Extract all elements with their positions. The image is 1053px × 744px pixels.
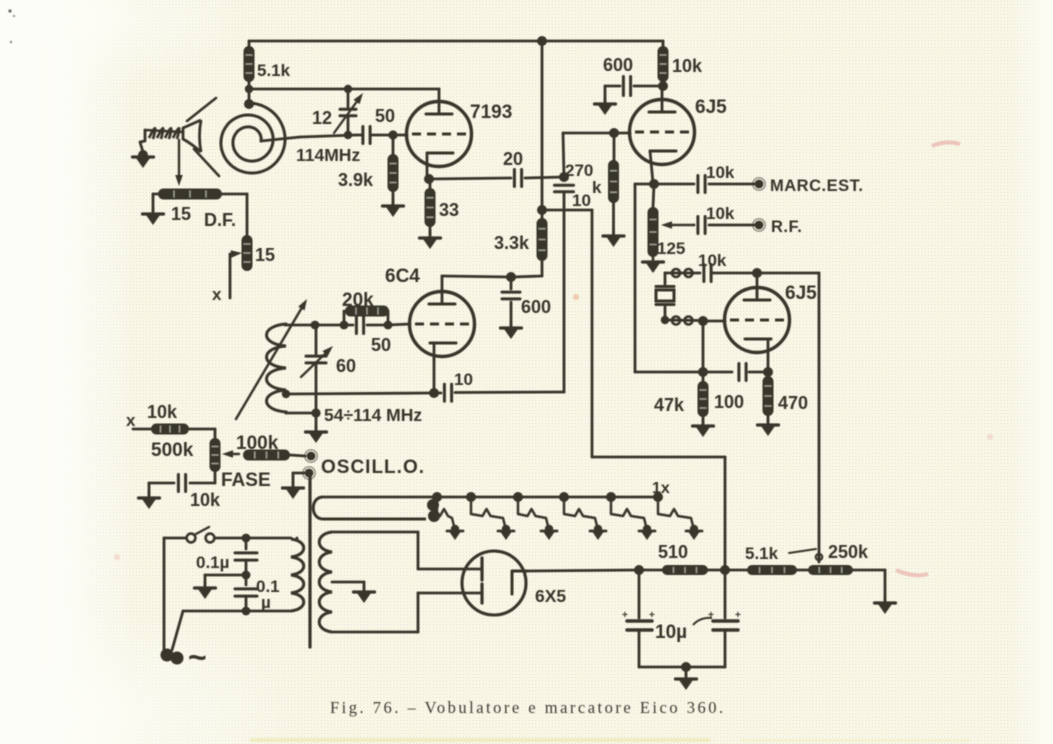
capacitor C 10k fase — [177, 475, 180, 492]
ground 47k — [702, 420, 705, 426]
wire 15 left lead — [153, 193, 158, 196]
svg-text:470: 470 — [778, 393, 808, 413]
capacitor C 100 — [737, 364, 740, 381]
wire horn drive arrow — [178, 140, 180, 175]
wire filament tap 4 — [559, 492, 569, 502]
ground 15 D.F. — [152, 208, 155, 214]
wire tank bottom — [286, 412, 316, 415]
resistor R 3.3k — [541, 210, 544, 218]
svg-text:10: 10 — [572, 191, 591, 210]
svg-text:54÷114 MHz: 54÷114 MHz — [324, 405, 422, 425]
capacitor C 10u right — [713, 619, 738, 622]
terminal xtal c — [672, 317, 680, 325]
node 6J5a plate node — [658, 81, 668, 91]
inductor spiral wobbulator coil — [221, 103, 285, 173]
horn vane of wobbulator drive — [183, 120, 201, 128]
node 6C4 cathode node — [429, 388, 439, 398]
capacitor C 600 screen — [510, 277, 513, 289]
switch mains — [187, 534, 196, 543]
svg-text:MARC.EST.: MARC.EST. — [770, 177, 863, 195]
ground filament tap 4 — [590, 530, 606, 533]
svg-text:500k: 500k — [151, 440, 194, 461]
node 6J5a grid — [609, 128, 619, 138]
wire 10u bottom — [639, 666, 725, 669]
ground 250k — [884, 597, 887, 603]
svg-text:6J5: 6J5 — [785, 283, 817, 304]
wire filament tap 1 — [432, 492, 442, 502]
plug mains — [161, 649, 174, 662]
terminal oscill a — [307, 452, 316, 461]
wire 10u right lead — [724, 570, 727, 618]
wire horn lower lever — [194, 149, 219, 176]
wire signal line y178 — [429, 178, 511, 179]
wire tank top — [285, 324, 344, 327]
wire B+ vertical — [541, 41, 544, 210]
wire 250k wiper — [818, 556, 821, 562]
svg-text:510: 510 — [658, 542, 688, 562]
tube V5 6X5 — [462, 551, 526, 615]
terminal MARC.EST. — [755, 180, 764, 189]
wire secondary bottom to plate — [332, 631, 418, 634]
wire mains top — [164, 537, 186, 540]
capacitor C 60 trimmer — [315, 325, 318, 354]
wire tank bottom to ground — [315, 413, 318, 430]
ground tank — [315, 426, 318, 432]
capacitor C 10 feedback — [443, 384, 446, 401]
resistor R 250k pot — [808, 565, 853, 575]
wire 6C4 grid lead — [388, 324, 410, 325]
wire fase cap to ground — [149, 482, 174, 485]
svg-text:R.F.: R.F. — [771, 218, 802, 236]
ground filament tap 6 — [686, 530, 702, 533]
svg-text:6J5: 6J5 — [695, 97, 727, 118]
node 47k top — [698, 367, 708, 377]
wire 10u left lead — [638, 570, 641, 618]
transformer primary winding — [291, 539, 304, 611]
svg-text:125: 125 — [657, 239, 685, 258]
terminal xtal b — [685, 269, 693, 277]
resistor R 15 D.F. — [158, 189, 222, 200]
svg-text:+: + — [735, 610, 741, 621]
capacitor C 10k rf — [696, 217, 699, 234]
resistor R 5.1k out — [747, 565, 797, 575]
resistor R 510 — [662, 565, 708, 575]
wire 6J5b plate row — [664, 272, 667, 275]
wire 6J5b grid lead — [703, 320, 725, 323]
transformer core — [308, 476, 311, 647]
wire marker stage left — [635, 183, 654, 186]
wire mains left — [163, 538, 166, 650]
ground 10u — [685, 673, 688, 679]
node top rail junction — [537, 36, 547, 46]
capacitor C 600 top — [622, 77, 625, 96]
svg-text:6C4: 6C4 — [385, 266, 420, 287]
svg-text:7193: 7193 — [470, 102, 512, 123]
scan artifacts — [932, 142, 960, 146]
ground 470 — [767, 419, 770, 425]
wire 15 right lead — [222, 193, 247, 196]
capacitor C 0.1 b — [245, 579, 248, 585]
svg-text:+: + — [622, 610, 628, 621]
capacitor C 20 — [513, 170, 516, 187]
node filament blob — [427, 499, 439, 511]
ground 270k — [612, 230, 615, 236]
wire 6X5 cathode out — [527, 570, 639, 571]
wire 500k bottom — [214, 472, 217, 483]
inductor L choke — [145, 130, 183, 132]
svg-text:+: + — [708, 610, 714, 621]
node tank bottom — [311, 408, 320, 417]
svg-text:114MHz: 114MHz — [296, 145, 360, 165]
svg-text:50: 50 — [371, 335, 391, 355]
svg-text:10k: 10k — [190, 490, 221, 510]
svg-text:100k: 100k — [236, 433, 279, 454]
wire secondary center tap — [332, 581, 364, 584]
capacitor C 10 coupling — [555, 184, 574, 187]
wire secondary top to plate — [332, 531, 418, 534]
wire horn upper lever — [187, 98, 216, 121]
svg-text:10k: 10k — [672, 56, 703, 76]
svg-text:+: + — [649, 610, 655, 621]
wire rf takeoff — [542, 209, 592, 212]
resistor R 500k — [210, 438, 221, 472]
node 6J5b plate — [752, 268, 762, 278]
svg-text:0.1µ: 0.1µ — [196, 553, 229, 572]
wire 10k to 500k — [189, 428, 215, 431]
ground center tap — [363, 586, 366, 592]
svg-text:12: 12 — [312, 108, 332, 128]
svg-text:10k: 10k — [706, 204, 735, 223]
ground filament tap 3 — [541, 530, 557, 533]
ground 600 screen — [510, 322, 513, 328]
svg-text:x: x — [126, 411, 136, 430]
svg-text:20k: 20k — [342, 290, 374, 311]
resistor R 470 — [767, 372, 770, 376]
inductor tank coil — [267, 324, 287, 413]
wire filament tap 2 — [466, 492, 476, 502]
wire grid line 7193 — [356, 134, 362, 137]
node 20k left — [340, 321, 349, 330]
node 10u bottom — [681, 662, 691, 672]
node 6J5a cathode — [649, 179, 659, 189]
node spiral top junction — [244, 99, 254, 109]
wire 100k wiper — [233, 453, 239, 455]
wire oscill b ground — [293, 472, 304, 475]
ground filament tap 5 — [639, 530, 655, 533]
svg-text:100: 100 — [714, 392, 744, 412]
wire 510 leads — [639, 569, 662, 572]
resistor R 3.9k — [392, 135, 395, 154]
wire plate line 7193 — [249, 88, 439, 91]
svg-text:Fig. 76. – Vobulatore e marcat: Fig. 76. – Vobulatore e marcatore Eico 3… — [330, 698, 726, 717]
wire rf line — [672, 224, 694, 226]
wire xtal bottom row — [665, 319, 700, 322]
node 6C4 plate node — [506, 272, 516, 282]
node 5.1k bottom — [245, 85, 253, 93]
terminal xtal a — [672, 269, 680, 277]
svg-text:k: k — [592, 178, 602, 197]
node trimmer bottom — [344, 131, 352, 139]
svg-text:20: 20 — [503, 149, 523, 169]
node 7193 cathode — [424, 174, 434, 184]
wire x lead — [133, 428, 151, 431]
svg-text:µ: µ — [261, 593, 271, 612]
svg-text:10k: 10k — [147, 402, 178, 422]
ground choke — [138, 150, 148, 160]
wire 20k-50 bridge — [344, 324, 353, 327]
svg-text:x: x — [212, 285, 222, 304]
wire 100 to cathode — [749, 371, 768, 374]
svg-text:600: 600 — [521, 297, 551, 317]
wire filament tap 5 — [606, 492, 616, 502]
node filter bottom — [242, 607, 251, 616]
resistor R 10k plate — [662, 41, 665, 46]
node 6J5b grid — [698, 316, 708, 326]
resistor R 15 rheostat — [242, 235, 253, 271]
resistor R 33 — [429, 179, 432, 188]
wire variable inductor arrow — [236, 308, 301, 419]
svg-text:10k: 10k — [706, 163, 735, 182]
svg-text:3.3k: 3.3k — [494, 233, 530, 253]
wire 100k to terminal — [290, 455, 305, 456]
resistor R 47k — [702, 372, 705, 381]
ground filter — [204, 582, 207, 588]
svg-text:33: 33 — [439, 200, 459, 220]
tube V1 7193 — [407, 102, 472, 167]
svg-text:5.1k: 5.1k — [257, 61, 291, 80]
ground filament tap 2 — [498, 530, 514, 533]
node 3.3k top — [537, 205, 547, 215]
node filter top — [242, 534, 251, 543]
wire 6C4 plate line — [442, 276, 511, 277]
wire filament tap 6 — [653, 492, 663, 502]
wire feedback line — [455, 391, 564, 394]
wire feedback to coil tap — [286, 393, 434, 394]
inductor filament winding — [313, 497, 426, 519]
wire filter mid ground — [205, 574, 246, 577]
svg-text:60: 60 — [336, 356, 356, 376]
ground 125 — [652, 256, 655, 262]
svg-text:600: 600 — [603, 55, 633, 75]
capacitor C 0.1 a — [245, 538, 248, 549]
tube V2 6J5 first — [661, 86, 664, 100]
svg-text:6X5: 6X5 — [535, 586, 566, 606]
svg-text:D.F.: D.F. — [204, 210, 236, 230]
svg-text:10: 10 — [454, 370, 473, 389]
capacitor C 50 osc — [355, 317, 358, 334]
svg-text:5.1k: 5.1k — [745, 544, 779, 563]
svg-text:10k: 10k — [698, 251, 727, 270]
capacitor C 10u left — [627, 619, 652, 622]
capacitor C 10k marc — [696, 176, 699, 193]
wire to 5.1k — [725, 569, 747, 572]
wire 6J5b grid to 47k — [702, 321, 705, 372]
wire filament tap 3 — [513, 492, 523, 502]
resistor R 270k — [613, 133, 616, 160]
wire 6J5a grid line — [614, 132, 630, 135]
svg-text:250k: 250k — [828, 542, 869, 562]
ground fase — [148, 492, 151, 498]
svg-text:50: 50 — [375, 106, 395, 126]
ground 3.9k — [392, 200, 395, 206]
wire 250k right — [853, 569, 885, 572]
resistor R 5.1k — [248, 41, 251, 46]
ground oscill — [292, 482, 295, 488]
tube V3 6J5 second — [756, 273, 759, 296]
svg-text:1x: 1x — [652, 480, 670, 497]
svg-text:3.9k: 3.9k — [338, 170, 374, 190]
wire choke to ground — [140, 130, 145, 152]
terminal xtal d — [685, 317, 693, 325]
svg-text:FASE: FASE — [221, 470, 271, 491]
wire marc line — [654, 183, 694, 186]
terminal oscill b — [305, 469, 314, 478]
node grid 7193 — [388, 130, 397, 139]
node coil tap — [282, 390, 290, 398]
svg-text:10µ: 10µ — [655, 622, 687, 643]
resistor R 20k — [343, 311, 346, 325]
svg-text:270: 270 — [565, 161, 593, 180]
capacitor C 12 trimmer — [347, 89, 350, 108]
crystal XTAL — [664, 273, 667, 284]
ground filament tap 1 — [447, 530, 463, 533]
node attenuator mid — [720, 565, 730, 575]
tube V4 6C4 — [410, 292, 475, 357]
wire 600 top lead — [634, 85, 663, 88]
wire spiral inner to grid line — [261, 137, 300, 141]
wire 6C4 cathode lead — [433, 355, 436, 393]
node 6J5b cathode node — [763, 367, 773, 377]
node trimmer top — [344, 85, 352, 93]
svg-text:47k: 47k — [654, 395, 685, 415]
node xtal bottom — [661, 316, 669, 324]
wire mains bottom — [183, 610, 291, 613]
resistor R 125 — [653, 184, 654, 207]
node 20k right — [384, 321, 393, 330]
capacitor C 50 — [361, 127, 364, 144]
node coupling junction — [559, 172, 569, 182]
wire x wiper — [230, 253, 231, 255]
wire 10u ground lead — [685, 667, 688, 677]
svg-text:15: 15 — [171, 204, 191, 224]
node tank top — [311, 321, 320, 330]
node 510 left — [634, 565, 644, 575]
svg-text:OSCILL.O.: OSCILL.O. — [321, 457, 425, 478]
transformer HV secondary — [319, 532, 332, 632]
wire top B+ rail — [249, 40, 663, 43]
wire filament top — [323, 496, 658, 499]
ground 33 — [429, 232, 432, 238]
capacitor C 10k xtal — [702, 265, 705, 282]
ground 600 top — [604, 98, 607, 104]
svg-text:~: ~ — [188, 639, 207, 675]
wire xtal top row — [665, 272, 700, 275]
terminal R.F. — [755, 221, 764, 230]
resistor R 100k — [243, 450, 290, 461]
resistor R 10k x — [151, 424, 189, 435]
svg-text:15: 15 — [255, 245, 275, 265]
wire 5.1k to 250k — [797, 569, 808, 572]
node filter mid — [242, 571, 251, 580]
